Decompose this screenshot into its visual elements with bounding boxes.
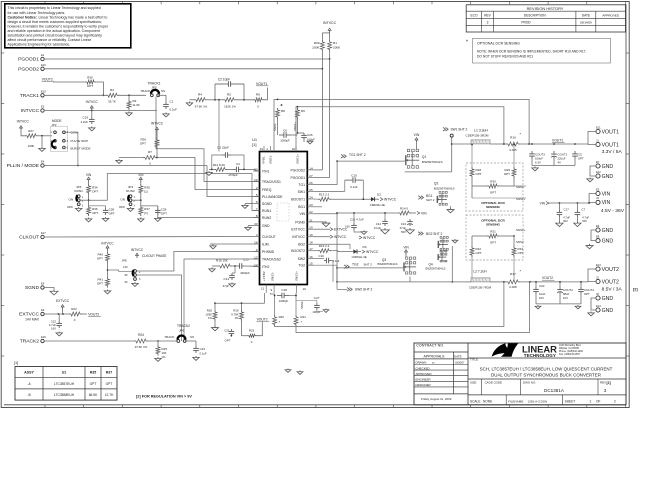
svg-text:C2 10pF: C2 10pF <box>218 78 230 82</box>
svg-text:OF: OF <box>596 399 600 403</box>
svg-text:SHT 2: SHT 2 <box>364 263 373 267</box>
svg-text:C23: C23 <box>200 347 206 351</box>
svg-text:D3: D3 <box>363 245 367 249</box>
svg-text:SNS2-: SNS2- <box>300 301 304 309</box>
svg-text:200K: 200K <box>333 46 341 50</box>
svg-text:03/26/07: 03/26/07 <box>455 362 465 365</box>
svg-text:VIN: VIN <box>86 173 92 177</box>
svg-text:SW2 SHT 2: SW2 SHT 2 <box>355 288 373 292</box>
svg-text:VIN: VIN <box>414 133 420 137</box>
svg-text:Linear Technology has made a b: Linear Technology has made a best effort… <box>39 15 108 19</box>
svg-text:C26: C26 <box>307 133 313 137</box>
svg-text:1%: 1% <box>234 316 239 320</box>
svg-text:C16: C16 <box>319 254 325 258</box>
svg-text:10: 10 <box>303 287 307 291</box>
svg-text:PLLIN / MODE: PLLIN / MODE <box>7 163 40 169</box>
svg-text:OPT: OPT <box>518 251 524 255</box>
svg-text:CDEP105-3R2M: CDEP105-3R2M <box>465 134 488 138</box>
svg-text:OPT: OPT <box>87 84 93 88</box>
svg-text:INTVCC: INTVCC <box>384 198 397 202</box>
svg-text:PGOOD1: PGOOD1 <box>290 176 305 180</box>
svg-text:TRACK1: TRACK1 <box>20 93 40 99</box>
svg-text:BSZ097N04LS: BSZ097N04LS <box>434 186 455 190</box>
svg-text:R11 8.2K: R11 8.2K <box>213 163 225 167</box>
svg-text:0.1uF: 0.1uF <box>333 259 340 263</box>
svg-text:R24: R24 <box>138 333 144 337</box>
svg-text:C19: C19 <box>82 116 88 120</box>
svg-text:DESCRIPTION: DESCRIPTION <box>524 13 546 17</box>
svg-text:R2: R2 <box>110 88 114 92</box>
svg-text:C27: C27 <box>314 296 320 300</box>
svg-text:EXTVCC: EXTVCC <box>291 228 305 232</box>
svg-text:GND: GND <box>602 296 614 302</box>
svg-text:NOTE: WHEN DCR SENSING IS IMPL: NOTE: WHEN DCR SENSING IS IMPLEMENTED, S… <box>477 50 587 54</box>
svg-text:R13 2.2: R13 2.2 <box>319 193 330 197</box>
svg-text:Customer Notice:: Customer Notice: <box>8 15 38 19</box>
svg-text:PGND: PGND <box>295 220 305 224</box>
svg-text:SIZE: SIZE <box>470 380 476 384</box>
svg-text:1381-A-3.DSN: 1381-A-3.DSN <box>528 399 548 403</box>
svg-text:EXTVCC: EXTVCC <box>56 299 70 303</box>
svg-text:1%: 1% <box>208 316 213 320</box>
svg-text:RUN1: RUN1 <box>74 189 83 193</box>
svg-text:TG1: TG1 <box>298 183 305 187</box>
svg-text:BOOST1: BOOST1 <box>291 197 305 201</box>
svg-text:4.7uF: 4.7uF <box>563 215 570 219</box>
svg-text:R21: R21 <box>301 315 307 319</box>
svg-text:PULSE SKIP: PULSE SKIP <box>71 139 89 143</box>
svg-text:DO NOT STUFF R8,R9,R20 AND R21: DO NOT STUFF R8,R9,R20 AND R21 <box>477 55 533 59</box>
svg-text:E1: E1 <box>41 53 45 57</box>
svg-text:VOUT1: VOUT1 <box>602 129 619 135</box>
svg-text:CMDSH-4E: CMDSH-4E <box>370 203 385 207</box>
svg-text:E11: E11 <box>596 125 601 129</box>
svg-text:R23: R23 <box>249 329 255 333</box>
svg-text:16V: 16V <box>51 327 56 331</box>
svg-text:L1 3.3uH: L1 3.3uH <box>474 129 488 133</box>
svg-text:GND: GND <box>602 238 614 244</box>
svg-text:however, it remains the custom: however, it remains the customer's respo… <box>8 24 109 28</box>
svg-text:VIN: VIN <box>299 212 305 216</box>
svg-text:4V: 4V <box>558 161 562 165</box>
svg-text:ECO: ECO <box>471 13 478 17</box>
svg-text:This circuit is proprietary to: This circuit is proprietary to Linear Te… <box>8 6 101 10</box>
svg-text:LTC3857EUH: LTC3857EUH <box>54 382 75 386</box>
svg-text:affect circuit performance or: affect circuit performance or reliabilit… <box>8 38 92 42</box>
svg-text:1000pF: 1000pF <box>280 139 290 143</box>
svg-text:E8: E8 <box>596 234 600 238</box>
svg-text:VIN: VIN <box>421 211 427 215</box>
svg-text:[1]: [1] <box>144 190 148 194</box>
svg-text:R37: R37 <box>106 371 113 375</box>
svg-text:SHEET: SHEET <box>565 399 576 403</box>
svg-text:SCH, LTC3857EUH / LTC3858EUH,: SCH, LTC3857EUH / LTC3858EUH, LOW QUIESC… <box>480 366 613 371</box>
svg-text:1%: 1% <box>162 355 167 359</box>
svg-text:3: 3 <box>487 20 489 24</box>
svg-text:50V: 50V <box>582 219 587 223</box>
svg-text:ASSY: ASSY <box>24 371 34 375</box>
svg-text:JP5: JP5 <box>151 85 157 89</box>
svg-text:INTVCC: INTVCC <box>334 235 347 239</box>
svg-text:APPROVED: APPROVED <box>416 372 432 376</box>
svg-text:OPT: OPT <box>578 157 584 161</box>
svg-text:U1: U1 <box>62 371 67 375</box>
svg-text:BG2: BG2 <box>298 243 305 247</box>
svg-text:E5: E5 <box>596 187 600 191</box>
svg-text:SCALE: SCALE <box>470 399 480 403</box>
svg-text:VOUT2: VOUT2 <box>88 312 99 316</box>
svg-text:4.5V - 36V: 4.5V - 36V <box>601 208 625 214</box>
svg-text:C14: C14 <box>223 277 229 281</box>
svg-text:0.1uF: 0.1uF <box>170 108 178 112</box>
svg-text:SNS1+: SNS1+ <box>296 154 300 164</box>
svg-text:TITLE: TITLE <box>470 358 478 362</box>
svg-text:DATE: DATE <box>454 355 462 359</box>
svg-text:OPT: OPT <box>92 211 98 215</box>
svg-text:OFF: OFF <box>119 205 125 209</box>
svg-text:SNS1-: SNS1- <box>516 185 525 189</box>
svg-text:2.2uF: 2.2uF <box>81 120 89 124</box>
svg-text:E10: E10 <box>41 89 46 93</box>
svg-text:OPT: OPT <box>490 191 496 195</box>
svg-text:D2: D2 <box>377 193 381 197</box>
svg-text:BG1: BG1 <box>298 205 305 209</box>
svg-text:GND: GND <box>602 308 614 314</box>
svg-text:INTVCC: INTVCC <box>363 236 376 240</box>
svg-text:120: 120 <box>123 265 128 269</box>
svg-text:OPT: OPT <box>476 172 482 176</box>
svg-text:[1]: [1] <box>144 211 148 215</box>
svg-text:R22: R22 <box>71 307 77 311</box>
svg-text:SNS2: SNS2 <box>516 240 524 244</box>
svg-text:4.7uF: 4.7uF <box>582 215 589 219</box>
svg-text:INTVCC: INTVCC <box>292 235 305 239</box>
svg-text:Q2: Q2 <box>434 182 439 186</box>
svg-text:E13: E13 <box>596 263 601 267</box>
svg-text:J6: J6 <box>596 292 599 296</box>
svg-text:47pF: 47pF <box>223 284 230 288</box>
svg-text:OPT: OPT <box>225 339 231 343</box>
svg-text:ILIM: ILIM <box>262 242 269 246</box>
svg-text:R8: R8 <box>281 109 285 113</box>
svg-text:TECHNOLOGY: TECHNOLOGY <box>524 353 556 358</box>
svg-text:VIN: VIN <box>602 200 611 206</box>
svg-text:REV: REV <box>600 380 606 384</box>
svg-text:SNS1-: SNS1- <box>273 123 277 131</box>
svg-text:0.008: 0.008 <box>509 285 517 289</box>
svg-text:E15: E15 <box>41 335 46 339</box>
svg-text:C20: C20 <box>539 284 545 288</box>
svg-text:32: 32 <box>292 147 296 151</box>
svg-text:R9: R9 <box>301 109 305 113</box>
svg-text:C4: C4 <box>236 162 240 166</box>
svg-text:and reliable operation in the: and reliable operation in the actual app… <box>8 29 100 33</box>
svg-text:OPT: OPT <box>476 251 482 255</box>
svg-text:SHT 2: SHT 2 <box>426 198 435 202</box>
svg-text:OFF: OFF <box>67 205 73 209</box>
svg-text:3.3V / 5A: 3.3V / 5A <box>602 149 623 155</box>
svg-text:CHECKED: CHECKED <box>416 366 430 370</box>
svg-text:0.1uF: 0.1uF <box>350 185 358 189</box>
svg-text:100K: 100K <box>28 144 35 148</box>
svg-text:[2]: [2] <box>607 381 611 385</box>
svg-text:2: 2 <box>614 399 616 403</box>
svg-text:LTC3858EUH: LTC3858EUH <box>54 393 75 397</box>
svg-text:SGND: SGND <box>25 285 40 291</box>
svg-text:SNS2+: SNS2+ <box>295 271 299 281</box>
svg-text:C1: C1 <box>170 100 174 104</box>
svg-text:R17: R17 <box>510 272 516 276</box>
svg-text:INTVCC: INTVCC <box>131 248 144 252</box>
svg-text:OPT: OPT <box>97 282 103 286</box>
svg-text:C17: C17 <box>564 207 570 211</box>
svg-text:ITH2: ITH2 <box>262 265 269 269</box>
svg-text:Fax: (408)434-0507: Fax: (408)434-0507 <box>559 353 581 356</box>
svg-text:VFB1: VFB1 <box>262 156 266 164</box>
svg-text:E14: E14 <box>596 304 601 308</box>
svg-text:C11 4.7uF: C11 4.7uF <box>350 218 364 222</box>
svg-text:C6: C6 <box>283 129 287 133</box>
svg-text:SW1: SW1 <box>298 190 305 194</box>
svg-text:INTVCC: INTVCC <box>86 100 99 104</box>
svg-text:200K: 200K <box>312 46 320 50</box>
svg-text:REVISION HISTORY: REVISION HISTORY <box>527 6 564 11</box>
svg-text:COM: COM <box>71 131 79 135</box>
svg-text:substitution and printed circu: substitution and printed circuit board l… <box>8 34 103 38</box>
svg-text:for use with Linear Technology: for use with Linear Technology parts. <box>8 11 66 15</box>
svg-text:E16: E16 <box>41 63 46 67</box>
svg-text:CLKOUT PHASE: CLKOUT PHASE <box>142 254 167 258</box>
svg-text:C18: C18 <box>282 288 288 292</box>
svg-text:VOUT2: VOUT2 <box>542 276 553 280</box>
svg-text:8.5V / 3A: 8.5V / 3A <box>602 287 623 293</box>
svg-text:[2] FOR REGULATION VIN > 9V: [2] FOR REGULATION VIN > 9V <box>136 395 192 399</box>
svg-text:OPT: OPT <box>106 382 113 386</box>
svg-text:PGOOD2: PGOOD2 <box>290 168 305 172</box>
svg-text:E3: E3 <box>41 308 45 312</box>
svg-text:EXTVCC: EXTVCC <box>334 228 348 232</box>
svg-text:R4: R4 <box>198 93 202 97</box>
svg-text:J1: J1 <box>596 138 599 142</box>
svg-text:SNS2-: SNS2- <box>270 272 274 281</box>
svg-text:[1]: [1] <box>14 361 18 365</box>
svg-text:0.1uF: 0.1uF <box>374 226 381 230</box>
svg-text:*: * <box>466 40 468 46</box>
svg-text:TG2: TG2 <box>298 264 305 268</box>
svg-text:PROD: PROD <box>521 20 531 24</box>
svg-text:NONE: NONE <box>483 399 492 403</box>
svg-text:R1: R1 <box>333 41 337 45</box>
svg-text:J3: J3 <box>596 196 599 200</box>
svg-text:INTVCC: INTVCC <box>101 242 114 246</box>
svg-text:SENSING: SENSING <box>486 223 501 227</box>
svg-text:[1]: [1] <box>252 142 256 147</box>
svg-text:CLKOUT: CLKOUT <box>262 235 276 239</box>
svg-text:SS: SS <box>190 335 194 339</box>
svg-text:TRACK: TRACK <box>140 89 150 93</box>
svg-text:BOOST2: BOOST2 <box>291 249 305 253</box>
svg-text:OPT: OPT <box>584 292 590 296</box>
svg-text:VOUT1: VOUT1 <box>256 82 267 86</box>
svg-text:OPT: OPT <box>90 382 97 386</box>
svg-text:R7: R7 <box>148 150 152 154</box>
svg-text:PGOOD2: PGOOD2 <box>18 67 39 73</box>
svg-text:BSZ097N04LS: BSZ097N04LS <box>422 160 443 164</box>
svg-text:R5: R5 <box>227 93 231 97</box>
svg-text:E4: E4 <box>41 160 45 164</box>
svg-text:SS: SS <box>161 89 165 93</box>
svg-text:RUN1: RUN1 <box>262 209 271 213</box>
svg-text:R6: R6 <box>256 93 260 97</box>
svg-text:VOUT1: VOUT1 <box>602 142 619 148</box>
svg-text:SW2: SW2 <box>298 257 305 261</box>
svg-text:SGND: SGND <box>262 202 272 206</box>
svg-text:CLKOUT: CLKOUT <box>19 235 39 241</box>
svg-text:BSZ097N04LS: BSZ097N04LS <box>377 262 397 266</box>
svg-text:OPT: OPT <box>490 241 496 245</box>
svg-text:VOUT2: VOUT2 <box>42 78 53 82</box>
svg-text:R10: R10 <box>510 135 516 139</box>
svg-text:R35: R35 <box>90 371 97 375</box>
svg-text:ON: ON <box>69 197 74 201</box>
svg-text:CDEP105-7R2M: CDEP105-7R2M <box>469 286 492 290</box>
svg-text:JP8: JP8 <box>122 259 127 263</box>
svg-text:J2: J2 <box>596 275 599 279</box>
svg-text:JP2: JP2 <box>52 123 57 127</box>
svg-text:DWG NO.: DWG NO. <box>523 380 536 384</box>
svg-text:66.5K: 66.5K <box>89 393 98 397</box>
svg-text:OPT: OPT <box>109 212 115 216</box>
svg-text:C15: C15 <box>243 258 249 262</box>
svg-text:R30: R30 <box>490 180 496 184</box>
svg-text:GND: GND <box>602 174 614 180</box>
svg-text:35.7K: 35.7K <box>108 100 116 104</box>
svg-text:50V: 50V <box>563 219 568 223</box>
svg-text:BG2 SHT 2: BG2 SHT 2 <box>426 232 442 236</box>
svg-text:E9: E9 <box>41 282 45 286</box>
svg-text:R14 0: R14 0 <box>400 206 408 210</box>
svg-text:TRACK2: TRACK2 <box>20 339 40 345</box>
svg-text:RUN2: RUN2 <box>262 216 271 220</box>
svg-text:APPROVED: APPROVED <box>602 13 620 17</box>
svg-text:SW1 SHT 2: SW1 SHT 2 <box>451 128 468 132</box>
svg-text:INTVCC: INTVCC <box>323 21 337 25</box>
svg-text:31: 31 <box>260 147 264 151</box>
svg-text:GND: GND <box>262 224 270 228</box>
svg-text:E6: E6 <box>596 224 600 228</box>
svg-text:ON: ON <box>120 197 125 201</box>
svg-text:[2]: [2] <box>633 288 638 292</box>
svg-text:SENSING: SENSING <box>486 205 501 209</box>
svg-text:TG1 SHT 2: TG1 SHT 2 <box>349 153 366 157</box>
svg-text:PLLIN/MODE: PLLIN/MODE <box>262 195 283 199</box>
svg-text:TG2: TG2 <box>352 263 359 267</box>
svg-text:APPROVALS: APPROVALS <box>424 355 446 359</box>
svg-text:11: 11 <box>261 287 264 291</box>
svg-text:C7: C7 <box>582 207 586 211</box>
svg-text:R26: R26 <box>87 75 93 79</box>
svg-text:INTVCC: INTVCC <box>17 120 30 124</box>
svg-text:97.6K 1%: 97.6K 1% <box>135 345 148 349</box>
svg-text:3300pF: 3300pF <box>240 271 250 275</box>
svg-text:E2: E2 <box>41 105 45 109</box>
svg-text:PHSMD: PHSMD <box>262 250 275 254</box>
svg-text:OPT: OPT <box>140 142 146 146</box>
svg-text:14V MAX: 14V MAX <box>25 318 40 322</box>
svg-text:VOUT1: VOUT1 <box>552 139 563 143</box>
svg-text:57.6K 1%: 57.6K 1% <box>195 105 208 109</box>
svg-text:JP6: JP6 <box>179 329 185 333</box>
svg-text:R39: R39 <box>314 41 320 45</box>
svg-text:VOUT2: VOUT2 <box>602 267 619 273</box>
svg-text:OPT: OPT <box>161 212 167 216</box>
svg-text:R31: R31 <box>490 230 496 234</box>
svg-text:4700pF: 4700pF <box>228 173 238 177</box>
svg-text:Friday, August 21, 2009: Friday, August 21, 2009 <box>421 397 452 401</box>
svg-text:E7: E7 <box>596 160 600 164</box>
svg-text:10V: 10V <box>563 296 568 300</box>
svg-text:OPTIONAL DCR SENSING: OPTIONAL DCR SENSING <box>477 42 520 46</box>
svg-text:DRAWN: DRAWN <box>416 361 427 365</box>
svg-text:FILENAME:: FILENAME: <box>508 399 524 403</box>
svg-text:GND: GND <box>602 164 614 170</box>
svg-text:E12: E12 <box>596 170 601 174</box>
svg-text:TRACK2: TRACK2 <box>177 324 190 328</box>
svg-text:OPT: OPT <box>92 190 98 194</box>
svg-text:SNS1+: SNS1+ <box>516 197 526 201</box>
svg-text:50V: 50V <box>401 230 406 234</box>
svg-text:12.7K: 12.7K <box>105 393 114 397</box>
svg-text:+VFB2: +VFB2 <box>262 271 266 281</box>
svg-text:BG1: BG1 <box>426 194 433 198</box>
svg-text:CAGE CODE: CAGE CODE <box>485 380 502 384</box>
svg-text:SNS1-: SNS1- <box>269 155 273 164</box>
svg-text:R27: R27 <box>28 129 34 133</box>
svg-text:ITH1: ITH1 <box>262 169 269 173</box>
svg-text:DESIGNER: DESIGNER <box>416 383 431 387</box>
svg-text:CMDSH-4E: CMDSH-4E <box>352 255 367 259</box>
svg-text:16V: 16V <box>539 296 544 300</box>
svg-text:TRACK: TRACK <box>164 335 174 339</box>
svg-text:R20: R20 <box>279 315 285 319</box>
svg-text:1: 1 <box>590 399 592 403</box>
svg-text:VOUT2: VOUT2 <box>602 279 619 285</box>
svg-text:PGOOD1: PGOOD1 <box>18 57 39 63</box>
svg-text:C3 22pF: C3 22pF <box>217 145 229 149</box>
svg-text:6.3V: 6.3V <box>535 161 541 165</box>
svg-text:DATE: DATE <box>582 13 590 17</box>
svg-text:BURST MODE: BURST MODE <box>71 147 91 151</box>
svg-text:VIN: VIN <box>540 202 546 206</box>
svg-text:Applications Engineering for a: Applications Engineering for assistance. <box>8 43 71 47</box>
svg-text:RUN2: RUN2 <box>126 189 135 193</box>
svg-text:CONTRACT NO.: CONTRACT NO. <box>416 343 444 347</box>
svg-text:11.9K: 11.9K <box>133 103 140 107</box>
svg-text:OPT: OPT <box>504 172 510 176</box>
svg-text:TRACK/SS2: TRACK/SS2 <box>262 257 281 261</box>
svg-text:L2 7.2uH: L2 7.2uH <box>473 270 487 274</box>
svg-text:C21: C21 <box>224 329 230 333</box>
svg-text:Q1: Q1 <box>422 155 427 159</box>
svg-text:OPT: OPT <box>97 257 103 261</box>
svg-text:DUAL OUTPUT SYNCHRONOUS BUCK C: DUAL OUTPUT SYNCHRONOUS BUCK CONVERTER <box>491 372 601 377</box>
svg-text:GND: GND <box>602 228 614 234</box>
svg-text:VIN: VIN <box>602 191 611 197</box>
svg-text:INTVCC: INTVCC <box>21 108 40 114</box>
svg-text:SNS1+: SNS1+ <box>293 122 297 131</box>
svg-text:BSZ097N04LS: BSZ097N04LS <box>425 266 445 270</box>
svg-text:0.005: 0.005 <box>509 148 517 152</box>
